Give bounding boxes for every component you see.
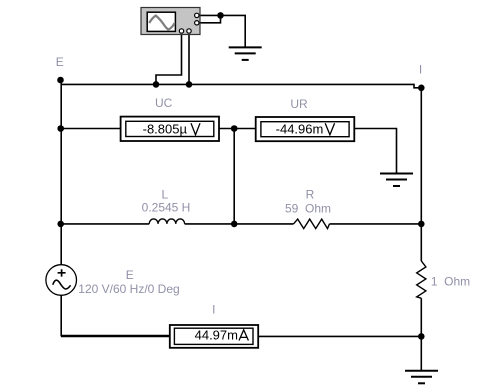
junction scope terminals xyxy=(217,12,224,19)
svg-text:44.97m: 44.97m xyxy=(195,328,238,343)
svg-text:0.2545 H: 0.2545 H xyxy=(142,201,191,215)
inductor L xyxy=(149,219,184,224)
svg-text:L: L xyxy=(161,188,168,202)
junction right rail LR line xyxy=(418,221,425,228)
wire left rail upper xyxy=(60,80,62,265)
junction right rail bottom xyxy=(418,333,425,340)
junction left rail LR line xyxy=(57,221,64,228)
wire top bus E node xyxy=(61,84,421,87)
oscilloscope XSC1 xyxy=(141,8,200,35)
svg-text:UR: UR xyxy=(290,97,308,111)
AC source E xyxy=(46,265,77,296)
wire UC meter to UR meter xyxy=(219,128,256,130)
wire bottom bus left xyxy=(61,335,170,337)
junction scope probe left xyxy=(153,81,160,88)
junction scope probe right xyxy=(186,81,193,88)
wire left rail to UC meter xyxy=(61,128,121,130)
wire right rail lower xyxy=(420,298,422,371)
wire scope terminal A to junction xyxy=(200,14,221,16)
wire mid rail xyxy=(233,129,235,224)
wire right rail upper xyxy=(420,88,422,261)
svg-text:UC: UC xyxy=(155,96,173,110)
svg-text:120 V/60 Hz/0 Deg: 120 V/60 Hz/0 Deg xyxy=(78,282,179,296)
ground top (scope) xyxy=(229,47,262,60)
wire UR meter to ground xyxy=(354,129,396,174)
wire scope probe right xyxy=(188,34,190,85)
wire left rail lower xyxy=(61,295,170,335)
svg-text:59 Ohm: 59 Ohm xyxy=(285,202,331,216)
wire scope probe left xyxy=(156,34,182,85)
wire inductor to resistor R xyxy=(185,223,294,225)
svg-text:-44.96m: -44.96m xyxy=(276,122,324,137)
voltmeter UC xyxy=(121,117,219,141)
svg-text:-8.805µ: -8.805µ xyxy=(143,122,188,137)
wire scope terminal B to junction xyxy=(200,15,221,22)
svg-text:I: I xyxy=(212,303,215,317)
junction mid rail LR line xyxy=(231,221,238,228)
ground bottom right xyxy=(405,371,438,384)
junction node E xyxy=(57,77,64,84)
resistor 1 Ohm xyxy=(417,261,426,298)
wire resistor R to right rail xyxy=(330,223,422,225)
svg-text:I: I xyxy=(419,63,422,77)
wire ammeter to right rail xyxy=(258,335,421,337)
wire junction to top ground xyxy=(221,15,246,47)
svg-text:E: E xyxy=(126,268,134,282)
ammeter I xyxy=(170,325,258,348)
resistor R xyxy=(294,219,330,229)
ground UR xyxy=(380,174,413,187)
junction mid rail meter line xyxy=(231,125,238,132)
svg-text:1 Ohm: 1 Ohm xyxy=(431,275,470,289)
voltmeter UR xyxy=(256,117,355,141)
junction left rail meter line xyxy=(57,125,64,132)
svg-text:R: R xyxy=(306,188,315,202)
junction node I xyxy=(418,85,425,92)
svg-text:E: E xyxy=(56,55,64,69)
wire left rail to inductor xyxy=(61,223,149,225)
